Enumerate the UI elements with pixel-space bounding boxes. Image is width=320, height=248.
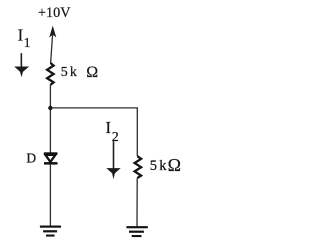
label I2 xyxy=(106,118,119,145)
wire: R2 bottom to right ground xyxy=(136,178,138,226)
svg-text:+10V: +10V xyxy=(38,5,71,21)
svg-text:I: I xyxy=(106,118,112,137)
svg-text:I: I xyxy=(18,26,24,45)
svg-text:5: 5 xyxy=(150,158,157,174)
supply arrow (wire up to +10V) xyxy=(49,26,56,64)
wire: diode to left ground xyxy=(49,165,51,226)
svg-text:Ω: Ω xyxy=(168,155,181,175)
svg-text:1: 1 xyxy=(24,35,31,50)
wire: R1 bottom to diode (through node) xyxy=(49,85,51,153)
svg-text:5: 5 xyxy=(61,65,68,80)
current arrow I2 xyxy=(106,141,120,179)
ground (left) xyxy=(40,226,61,237)
svg-text:k: k xyxy=(70,65,77,80)
svg-text:k: k xyxy=(159,158,167,174)
value label 5 k Ohm (R1) xyxy=(61,64,98,81)
value label 5 kOhm (R2) xyxy=(150,155,181,175)
resistor R1 (5 kOhm) zigzag xyxy=(47,63,54,85)
wire: horizontal from node, corner, down to R2 xyxy=(50,108,137,156)
current arrow I1 xyxy=(14,53,29,77)
node junction dot xyxy=(48,106,52,110)
diode D xyxy=(44,152,58,164)
svg-text:Ω: Ω xyxy=(86,64,98,81)
svg-text:D: D xyxy=(26,151,36,166)
resistor R2 (5 kOhm) zigzag xyxy=(135,156,142,178)
label I1 xyxy=(18,26,31,50)
ground (right) xyxy=(126,226,147,237)
